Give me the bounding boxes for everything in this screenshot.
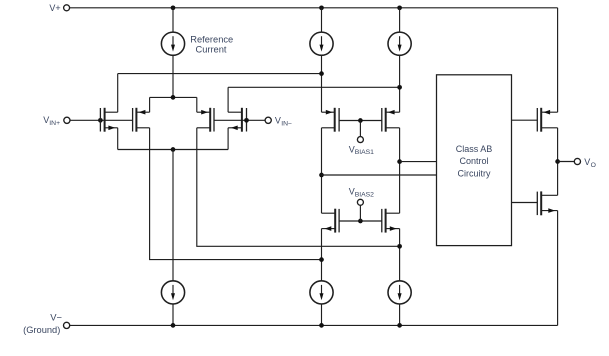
wire right cascode node to class AB box	[400, 161, 437, 163]
node junction NMOS tail / bottom current source	[171, 147, 176, 152]
terminal VIN-	[265, 117, 271, 123]
class AB control box U1	[437, 75, 512, 246]
transistor M2 (input NMOS, right)	[228, 108, 246, 132]
wire M3 source up to PMOS tail	[149, 97, 151, 112]
node junction VBIAS2	[358, 219, 363, 224]
wire M2 drain up to summing line	[227, 87, 229, 112]
terminal V- (ground)	[64, 322, 70, 328]
wire class AB box to M10 gate	[512, 202, 538, 204]
transistor M8 (cascode NMOS, right)	[382, 209, 400, 233]
wire VBIAS1 stub	[359, 121, 361, 137]
wire M1 source down to tail	[117, 128, 119, 150]
node junction VBIAS1	[358, 118, 363, 123]
node junction bottom rail / I5	[319, 323, 324, 328]
transistor M9 (output PMOS)	[537, 108, 557, 132]
current source I3 (top right)	[388, 8, 411, 112]
wire M3 drain down and right to M7 source node	[150, 128, 322, 260]
wire cascode node right (M6 drain to M8 drain)	[399, 128, 401, 213]
node junction PMOS tail / reference current	[171, 95, 176, 100]
node junction summing line / M5 source column	[319, 71, 324, 76]
svg-text:(Ground): (Ground)	[23, 325, 60, 335]
svg-text:Circuitry: Circuitry	[458, 168, 491, 178]
node junction top rail / reference current	[171, 5, 176, 10]
node junction right cascode to class AB	[397, 159, 402, 164]
svg-text:BIAS2: BIAS2	[355, 192, 374, 199]
svg-text:Reference: Reference	[190, 34, 233, 44]
node junction M8 source / M4 drain line	[397, 244, 402, 249]
wire VIN+ to gates of M1 and M3	[70, 119, 133, 121]
wire NMOS tail down to current source I4	[172, 150, 174, 282]
svg-text:Control: Control	[459, 156, 488, 166]
svg-text:BIAS1: BIAS1	[355, 149, 374, 156]
node junction top rail / current source 2	[319, 5, 324, 10]
wire M7 source down to current source I5	[321, 229, 323, 281]
wire M10 source down to bottom rail	[557, 211, 559, 326]
svg-text:V: V	[584, 157, 590, 167]
wire VBIAS2 stub	[359, 205, 361, 221]
wire M9 drain down to output node	[557, 128, 559, 162]
current source I2 (top middle)	[310, 8, 333, 112]
transistor M6 (cascode PMOS, right)	[382, 108, 400, 132]
svg-text:V: V	[275, 115, 281, 125]
node junction bottom rail / I6	[397, 323, 402, 328]
wire bottom rail	[70, 324, 558, 326]
current source I6 (bottom right)	[388, 281, 411, 326]
current source I1 reference current	[161, 8, 184, 98]
wire M2 source down to tail	[227, 128, 229, 150]
terminal VIN+	[64, 117, 70, 123]
wire M10 drain up to output node	[557, 162, 559, 196]
svg-text:IN+: IN+	[49, 120, 60, 127]
terminal V+	[64, 5, 70, 11]
current source I5 (bottom middle)	[310, 281, 333, 326]
wire VBIAS2 gate line	[339, 220, 382, 222]
wire M2 drain summing line to cascode M6 source column	[228, 86, 400, 88]
wire top supply rail	[70, 7, 558, 9]
transistor M4 (input PMOS, right)	[197, 108, 214, 132]
wire NMOS tail bar	[118, 149, 228, 151]
wire cascode node left (M5 drain to M7 drain)	[321, 128, 323, 213]
svg-text:Class AB: Class AB	[456, 144, 493, 154]
node junction VIN- gate	[244, 118, 249, 123]
wire VIN- gate line from M4 to terminal	[214, 119, 265, 121]
svg-text:V−: V−	[50, 312, 62, 323]
node junction summing line / M6 source column	[397, 85, 402, 90]
wire left cascode node to class AB box	[322, 174, 437, 176]
current source I4 (bottom left)	[161, 281, 184, 326]
terminal VBIAS1	[357, 137, 363, 143]
node junction M7 source / M3 drain line	[319, 257, 324, 262]
terminal VO	[574, 158, 580, 164]
wire M1 drain up to summing line	[117, 74, 119, 113]
svg-text:O: O	[591, 162, 596, 169]
transistor M5 (cascode PMOS, left)	[322, 108, 340, 132]
wire PMOS tail bar	[150, 96, 197, 98]
wire class AB box to M9 gate	[512, 119, 538, 121]
wire M1 drain summing line to cascode M5 source column	[118, 73, 322, 75]
terminal VBIAS2	[357, 199, 363, 205]
svg-text:V+: V+	[49, 3, 60, 13]
svg-text:Current: Current	[195, 45, 226, 55]
wire M4 source up to PMOS tail	[196, 97, 198, 112]
wire VBIAS1 gate line	[339, 120, 382, 122]
wire top rail right drop to output PMOS source	[557, 8, 559, 112]
node junction top rail / current source 3	[397, 5, 402, 10]
node junction bottom rail / I4	[171, 323, 176, 328]
wire M8 source down to current source I6	[399, 229, 401, 281]
node junction VIN+ gate	[98, 118, 103, 123]
transistor M10 (output NMOS)	[537, 191, 557, 215]
wire M4 drain down and right to M8 source node	[197, 128, 400, 247]
transistor M3 (input PMOS, left)	[133, 108, 150, 132]
transistor M1 (input NMOS, left)	[100, 108, 117, 132]
wire output node to VO terminal	[558, 161, 575, 163]
node junction output	[555, 159, 560, 164]
svg-text:IN−: IN−	[281, 120, 292, 127]
transistor M7 (cascode NMOS, left)	[322, 209, 340, 233]
node junction left cascode to class AB	[319, 173, 324, 178]
